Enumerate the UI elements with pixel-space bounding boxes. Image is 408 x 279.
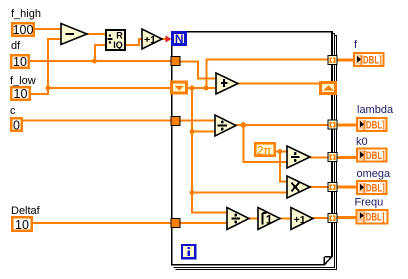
svg-text:+1: +1: [294, 214, 306, 226]
svg-text:[DBL]: [DBL]: [363, 150, 385, 162]
svg-text:1: 1: [266, 213, 273, 227]
svg-text:+1: +1: [144, 34, 156, 46]
svg-text:IQ: IQ: [113, 40, 123, 50]
svg-text:[DBL]: [DBL]: [363, 211, 385, 223]
svg-text:10: 10: [14, 87, 28, 101]
svg-text:10: 10: [15, 218, 29, 232]
svg-text:R: R: [116, 30, 123, 40]
svg-text:Frequ: Frequ: [355, 197, 384, 209]
svg-text:10: 10: [13, 55, 27, 69]
svg-text:0: 0: [13, 119, 20, 133]
svg-text:Deltaf: Deltaf: [11, 205, 41, 217]
svg-text:[DBL]: [DBL]: [360, 55, 382, 67]
svg-text:df: df: [11, 40, 21, 52]
svg-text:2π: 2π: [257, 145, 271, 157]
svg-text:omega: omega: [357, 168, 392, 180]
svg-text:f_low: f_low: [10, 75, 36, 87]
svg-text:k0: k0: [356, 136, 368, 148]
svg-text:N: N: [175, 32, 184, 46]
svg-text:100: 100: [13, 23, 34, 37]
svg-text:lambda: lambda: [357, 104, 394, 116]
svg-text:[DBL]: [DBL]: [363, 183, 385, 195]
svg-text:c: c: [10, 105, 16, 117]
svg-text:[DBL]: [DBL]: [363, 120, 385, 132]
svg-text:f_high: f_high: [11, 8, 41, 20]
